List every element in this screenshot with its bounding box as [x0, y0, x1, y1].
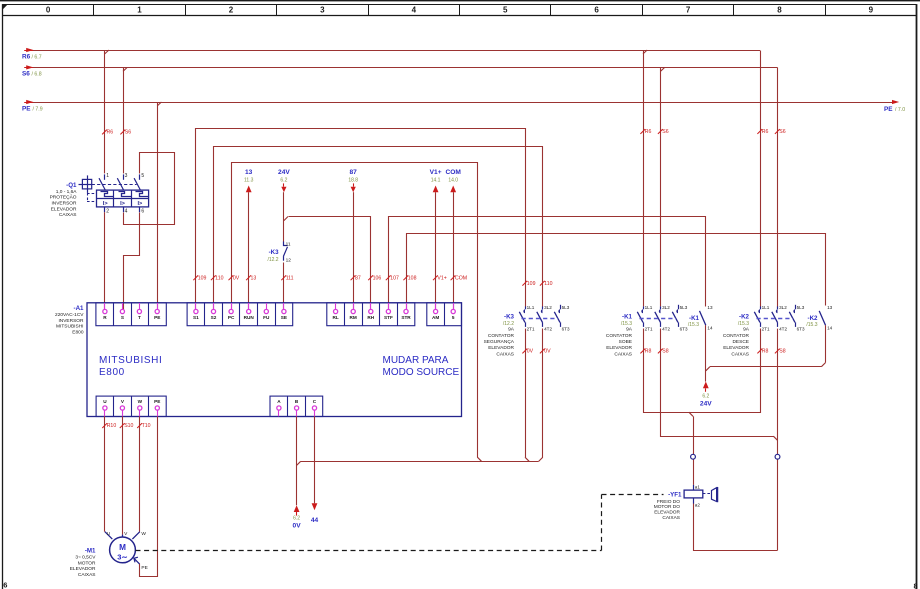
svg-text:S8: S8 — [779, 349, 785, 355]
svg-text:1L1: 1L1 — [645, 305, 653, 310]
svg-text:E800: E800 — [99, 367, 125, 378]
svg-text:14: 14 — [707, 326, 713, 331]
svg-text:STR: STR — [401, 315, 411, 320]
svg-text:R10: R10 — [107, 423, 117, 429]
svg-text:87: 87 — [350, 169, 358, 176]
svg-text:1: 1 — [137, 6, 142, 15]
svg-text:M: M — [119, 543, 126, 552]
svg-text:14.1: 14.1 — [431, 177, 441, 183]
wire PE to motor — [140, 417, 158, 577]
svg-text:-Q1: -Q1 — [66, 182, 77, 189]
contact K3 aux 11-12 — [267, 242, 291, 264]
svg-text:4T2: 4T2 — [544, 327, 552, 332]
svg-text:14: 14 — [827, 326, 833, 331]
breaker Q1 — [50, 173, 149, 218]
wire R6 drop to K1 1L1 — [643, 50, 645, 306]
svg-text:MOTOR DO: MOTOR DO — [654, 504, 681, 510]
svg-text:ELEVADOR: ELEVADOR — [70, 566, 96, 572]
svg-text:6: 6 — [3, 581, 7, 589]
svg-text:12: 12 — [286, 258, 292, 264]
svg-text:S: S — [121, 315, 124, 320]
svg-text:6.2: 6.2 — [702, 394, 709, 400]
svg-text:R8: R8 — [762, 349, 769, 355]
svg-text:9A: 9A — [626, 327, 633, 333]
svg-text:CAIXAS: CAIXAS — [614, 351, 632, 357]
svg-text:FREIO DO: FREIO DO — [657, 499, 680, 505]
svg-text:RUN: RUN — [244, 315, 255, 320]
svg-text:/15.3: /15.3 — [738, 321, 749, 327]
wire Q1 pole3 to inverter S — [124, 213, 140, 310]
wire S10 (V to motor) — [122, 416, 124, 534]
svg-text:3L2: 3L2 — [779, 305, 787, 310]
inverter terminals RL RM RH STF STR — [327, 303, 415, 326]
svg-text:SOBE: SOBE — [619, 339, 632, 345]
wire PE drop to inverter PE — [157, 102, 159, 309]
svg-text:87: 87 — [355, 275, 361, 281]
svg-text:PE: PE — [22, 105, 31, 112]
svg-text:COM: COM — [455, 275, 467, 281]
svg-text:A: A — [277, 399, 281, 404]
svg-text:106: 106 — [373, 275, 382, 281]
signal arrow 13 (RUN) — [248, 192, 250, 309]
wire 106 (RH to 24V line) — [289, 217, 371, 310]
svg-text:-K3: -K3 — [504, 314, 515, 321]
wire 108 (STR to K2 aux 13) — [407, 234, 826, 310]
svg-text:-A1: -A1 — [74, 305, 85, 312]
svg-text:109: 109 — [198, 275, 207, 281]
svg-text:24V: 24V — [278, 169, 290, 176]
wire 0V from K3 4T2 — [539, 329, 543, 462]
svg-text:ELEVADOR: ELEVADOR — [606, 345, 632, 351]
svg-text:S6: S6 — [779, 129, 785, 135]
svg-text:6T3: 6T3 — [797, 327, 805, 332]
wire R6 power rail — [24, 50, 33, 52]
svg-text:6: 6 — [141, 209, 144, 215]
wire Q1 pole2 jumper to pole3 — [124, 153, 175, 225]
svg-text:5L3: 5L3 — [562, 305, 570, 310]
svg-text:4T2: 4T2 — [779, 327, 787, 332]
contactor K1 poles — [606, 305, 688, 358]
svg-text:110: 110 — [215, 275, 223, 281]
svg-text:8: 8 — [777, 6, 782, 15]
svg-text:-K1: -K1 — [689, 315, 700, 322]
svg-text:7: 7 — [686, 6, 691, 15]
svg-text:/15.3: /15.3 — [806, 322, 817, 328]
svg-text:109: 109 — [527, 281, 536, 287]
svg-text:4: 4 — [412, 6, 417, 15]
svg-text:PE: PE — [154, 399, 160, 404]
svg-text:/15.3: /15.3 — [621, 321, 632, 327]
svg-text:R: R — [103, 315, 107, 320]
svg-text:14.0: 14.0 — [448, 177, 458, 183]
svg-text:STF: STF — [384, 315, 393, 320]
svg-text:0V: 0V — [233, 275, 240, 281]
svg-text:/15.3: /15.3 — [688, 322, 699, 328]
wire R6 to K2 1L1 — [760, 51, 762, 307]
svg-text:DESCE: DESCE — [732, 339, 749, 345]
svg-text:18.8: 18.8 — [348, 177, 358, 183]
svg-text:RH: RH — [367, 315, 374, 320]
wire S6 drop to K1 3L2 — [660, 67, 662, 306]
svg-text:SEGURANÇA: SEGURANÇA — [484, 339, 515, 345]
svg-text:1: 1 — [106, 173, 109, 179]
wire PE power rail — [24, 102, 33, 104]
svg-text:0V: 0V — [544, 349, 551, 355]
wire S8 (K1 4T2 / K2 4T2 to brake) — [661, 329, 774, 437]
wire S6 power rail — [24, 67, 33, 69]
svg-text:ELEVADOR: ELEVADOR — [723, 345, 749, 351]
wire 110 (S2 to K3 3L2) — [214, 147, 543, 310]
svg-text:U: U — [103, 399, 107, 404]
svg-text:PC: PC — [228, 315, 235, 320]
svg-text:-YF1: -YF1 — [668, 491, 682, 498]
svg-text:3~ 0,5CV: 3~ 0,5CV — [75, 555, 96, 561]
svg-text:11: 11 — [286, 242, 291, 248]
svg-text:24V: 24V — [700, 401, 712, 408]
svg-text:PE: PE — [141, 565, 147, 571]
wire T10 (W to motor) — [139, 416, 141, 531]
svg-text:6T3: 6T3 — [680, 327, 688, 332]
svg-text:3∼: 3∼ — [117, 552, 128, 561]
svg-text:W: W — [141, 531, 146, 537]
svg-text:9: 9 — [869, 6, 874, 15]
svg-text:110: 110 — [544, 281, 552, 287]
svg-text:RL: RL — [332, 315, 338, 320]
svg-text:COM: COM — [446, 169, 462, 176]
inverter terminals S1 S2 PC RUN FU SE — [187, 303, 293, 326]
svg-text:a1: a1 — [695, 485, 701, 490]
svg-text:/12.2: /12.2 — [503, 321, 514, 327]
wire 0V (PC to 0V bus) — [232, 163, 478, 458]
svg-text:PROTEÇÃO: PROTEÇÃO — [50, 194, 77, 201]
svg-text:I>: I> — [137, 201, 143, 207]
svg-text:CAIXAS: CAIXAS — [731, 351, 749, 357]
motor M1 — [70, 531, 148, 578]
svg-text:-K1: -K1 — [622, 314, 633, 321]
svg-text:R8: R8 — [645, 349, 652, 355]
signal arrow 0V at B — [294, 505, 300, 512]
svg-text:E800: E800 — [72, 329, 84, 335]
svg-text:13: 13 — [245, 169, 253, 176]
svg-text:/ 7.0: / 7.0 — [895, 107, 905, 113]
svg-text:-M1: -M1 — [85, 547, 96, 554]
svg-text:MODO SOURCE: MODO SOURCE — [383, 367, 460, 378]
wire R10 (U to motor) — [104, 416, 106, 531]
svg-text:-K3: -K3 — [269, 249, 280, 256]
aux contact K1 13-14 — [688, 305, 713, 331]
wire S6 to K2 3L2 — [777, 68, 779, 307]
svg-text:1L1: 1L1 — [762, 305, 770, 310]
svg-text:108: 108 — [408, 275, 417, 281]
svg-text:SE: SE — [281, 315, 287, 320]
junction ball right — [775, 454, 780, 459]
contactor K3 poles — [484, 305, 570, 358]
svg-text:2: 2 — [229, 6, 234, 15]
signal arrow 24V at aux node — [703, 382, 709, 389]
svg-text:MITSUBISHI: MITSUBISHI — [99, 355, 162, 366]
svg-text:R6: R6 — [107, 130, 114, 136]
svg-text:I>: I> — [120, 201, 126, 207]
svg-text:6.2: 6.2 — [293, 515, 300, 521]
svg-text:PE: PE — [154, 315, 160, 320]
svg-text:111: 111 — [286, 275, 294, 281]
svg-text:S6: S6 — [662, 129, 668, 135]
svg-text:5: 5 — [141, 173, 144, 179]
svg-text:FU: FU — [263, 315, 270, 320]
wire R8 (K1 2T1 / K2 2T1 to brake) — [644, 329, 761, 413]
svg-text:2: 2 — [106, 209, 109, 215]
svg-text:V1+: V1+ — [437, 275, 446, 281]
svg-text:T10: T10 — [142, 423, 151, 429]
wire 0V from K3 2T1 — [525, 329, 527, 458]
svg-text:R6: R6 — [22, 53, 31, 60]
svg-text:a2: a2 — [695, 503, 701, 508]
wire 111 lower (K3 contact to SE) — [283, 263, 285, 310]
svg-text:4T2: 4T2 — [662, 327, 670, 332]
svg-text:6: 6 — [594, 6, 599, 15]
svg-text:CAIXAS: CAIXAS — [496, 351, 514, 357]
svg-text:1,0 - 1,6A: 1,0 - 1,6A — [56, 189, 78, 195]
contactor K2 poles — [723, 305, 805, 358]
inverter terminals A B C — [270, 396, 323, 416]
signal arrow COM (terminal 5) — [453, 192, 455, 309]
svg-text:PE: PE — [884, 106, 893, 113]
svg-text:3: 3 — [125, 173, 128, 179]
svg-text:R6: R6 — [762, 129, 769, 135]
mechanical linkage motor to brake (dashed) — [136, 550, 602, 552]
aux contact K2 13-14 — [806, 305, 832, 331]
svg-text:-K2: -K2 — [739, 314, 750, 321]
svg-text:3: 3 — [320, 6, 325, 15]
svg-text:11.3: 11.3 — [244, 177, 254, 183]
svg-text:CONTATOR: CONTATOR — [723, 333, 750, 339]
svg-text:/ 7.9: / 7.9 — [33, 106, 43, 112]
inverter terminals R S T PE — [96, 303, 166, 326]
svg-text:3L2: 3L2 — [544, 305, 552, 310]
svg-text:S6: S6 — [22, 71, 30, 78]
svg-text:RM: RM — [350, 315, 357, 320]
svg-text:ELEVADOR: ELEVADOR — [51, 206, 77, 212]
svg-text:INVERSOR: INVERSOR — [58, 318, 84, 324]
signal arrow 44 at C — [312, 503, 318, 510]
svg-text:MITSUBISHI: MITSUBISHI — [56, 324, 83, 330]
svg-text:U: U — [107, 531, 111, 537]
svg-text:ELEVADOR: ELEVADOR — [488, 345, 514, 351]
inverter terminals AM 5 — [427, 303, 462, 326]
svg-text:CAIXAS: CAIXAS — [59, 212, 77, 218]
svg-text:44: 44 — [311, 517, 319, 524]
svg-text:AM: AM — [432, 315, 439, 320]
svg-text:S1: S1 — [193, 315, 199, 320]
svg-text:5L3: 5L3 — [797, 305, 805, 310]
svg-text:/12.2: /12.2 — [267, 257, 278, 263]
svg-text:CONTATOR: CONTATOR — [606, 333, 633, 339]
wire 107 (STF to K1 aux 13) — [389, 217, 706, 310]
signal arrow 87 (RM) — [353, 183, 355, 186]
svg-text:S10: S10 — [124, 423, 133, 429]
wire S6 drop to Q1 pole 2 — [123, 67, 125, 173]
svg-text:8: 8 — [914, 582, 918, 589]
svg-text:2T1: 2T1 — [645, 327, 653, 332]
svg-text:0: 0 — [46, 6, 51, 15]
svg-text:13: 13 — [251, 275, 257, 281]
svg-text:0V: 0V — [293, 522, 302, 529]
svg-text:1L1: 1L1 — [527, 305, 535, 310]
svg-text:220VAC-1CV: 220VAC-1CV — [55, 312, 84, 318]
svg-text:13: 13 — [827, 305, 833, 310]
wire K1 aux 14 to 24V arrow — [705, 325, 707, 381]
svg-text:S6: S6 — [125, 130, 131, 136]
svg-text:S2: S2 — [211, 315, 217, 320]
svg-text:5L3: 5L3 — [680, 305, 688, 310]
svg-text:MUDAR PARA: MUDAR PARA — [383, 355, 449, 366]
svg-text:6T3: 6T3 — [562, 327, 570, 332]
svg-text:MOTOR: MOTOR — [78, 560, 96, 566]
svg-text:9A: 9A — [743, 327, 750, 333]
svg-text:107: 107 — [390, 275, 399, 281]
svg-text:CAIXAS: CAIXAS — [662, 515, 680, 521]
svg-text:ELEVADOR: ELEVADOR — [654, 510, 680, 516]
svg-text:5: 5 — [452, 315, 455, 320]
svg-text:W: W — [138, 399, 143, 404]
svg-text:0V: 0V — [527, 349, 534, 355]
wire aux link to K2 aux 14 — [710, 366, 822, 368]
signal arrow V1+ (AM) — [435, 192, 437, 309]
svg-text:CONTATOR: CONTATOR — [488, 333, 515, 339]
svg-text:3L2: 3L2 — [662, 305, 670, 310]
svg-text:I>: I> — [103, 201, 109, 207]
svg-text:4: 4 — [125, 209, 128, 215]
svg-text:6.2: 6.2 — [280, 177, 287, 183]
svg-text:CAIXAS: CAIXAS — [78, 572, 96, 578]
inverter A1 block — [55, 303, 461, 417]
wire brake return loop — [694, 504, 778, 551]
svg-text:13: 13 — [707, 305, 713, 310]
svg-text:2T1: 2T1 — [527, 327, 535, 332]
svg-text:5: 5 — [503, 6, 508, 15]
junction ball left — [691, 454, 696, 459]
svg-text:V1+: V1+ — [430, 169, 442, 176]
svg-text:2T1: 2T1 — [762, 327, 770, 332]
wire 44 from C — [314, 416, 316, 503]
inverter terminals U V W PE — [96, 396, 166, 416]
wire R6 drop to Q1 pole 1 — [104, 50, 106, 173]
svg-text:/ 6.7: / 6.7 — [32, 54, 42, 60]
svg-text:INVERSOR: INVERSOR — [51, 201, 77, 207]
svg-text:S8: S8 — [662, 349, 668, 355]
wire Q1 pole1 to inverter R — [104, 212, 106, 309]
wire 109 (S1 to K3 1L1) — [196, 129, 526, 310]
wire 0V bus (B to K3 outputs) — [296, 416, 298, 505]
svg-text:T: T — [138, 315, 141, 320]
svg-text:R6: R6 — [645, 129, 652, 135]
svg-text:-K2: -K2 — [808, 315, 819, 322]
brake YF1 — [654, 485, 718, 521]
svg-text:9A: 9A — [508, 327, 515, 333]
signal arrow 24V / wire 111 (SE) — [283, 183, 285, 186]
svg-text:/ 6.8: / 6.8 — [32, 72, 42, 78]
